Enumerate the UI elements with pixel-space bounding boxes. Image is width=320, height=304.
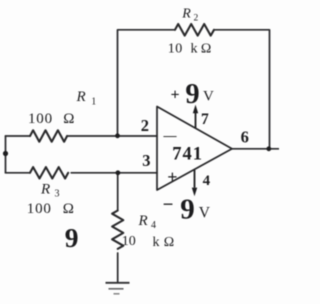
- svg-text:k: k: [153, 235, 160, 250]
- svg-text:10: 10: [168, 42, 183, 57]
- svg-text:7: 7: [201, 111, 209, 128]
- svg-text:9: 9: [185, 79, 199, 110]
- svg-text:R: R: [40, 182, 50, 198]
- svg-text:6: 6: [241, 127, 249, 146]
- svg-text:3: 3: [142, 151, 150, 170]
- svg-text:100: 100: [28, 111, 53, 127]
- svg-text:100: 100: [27, 201, 52, 217]
- svg-text:+: +: [167, 167, 177, 187]
- svg-text:2: 2: [194, 14, 199, 24]
- svg-text:Ω: Ω: [201, 42, 211, 57]
- svg-text:9: 9: [65, 222, 79, 253]
- svg-text:3: 3: [55, 189, 60, 200]
- svg-text:Ω: Ω: [63, 201, 74, 217]
- svg-text:R: R: [181, 7, 191, 22]
- svg-text:k: k: [191, 42, 198, 57]
- svg-text:V: V: [199, 204, 211, 221]
- svg-text:1: 1: [91, 97, 96, 108]
- svg-text:R: R: [138, 213, 148, 229]
- svg-text:R: R: [76, 89, 86, 105]
- svg-text:2: 2: [141, 116, 149, 135]
- svg-text:4: 4: [203, 173, 211, 189]
- svg-text:Ω: Ω: [63, 111, 74, 127]
- svg-text:Ω: Ω: [164, 235, 174, 250]
- svg-text:9: 9: [180, 194, 195, 226]
- svg-text:4: 4: [151, 220, 156, 231]
- svg-text:+: +: [171, 87, 180, 104]
- svg-text:−: −: [163, 195, 174, 216]
- svg-text:V: V: [203, 88, 214, 104]
- svg-text:—: —: [163, 127, 178, 142]
- svg-text:10: 10: [122, 234, 136, 249]
- svg-text:741: 741: [172, 145, 203, 165]
